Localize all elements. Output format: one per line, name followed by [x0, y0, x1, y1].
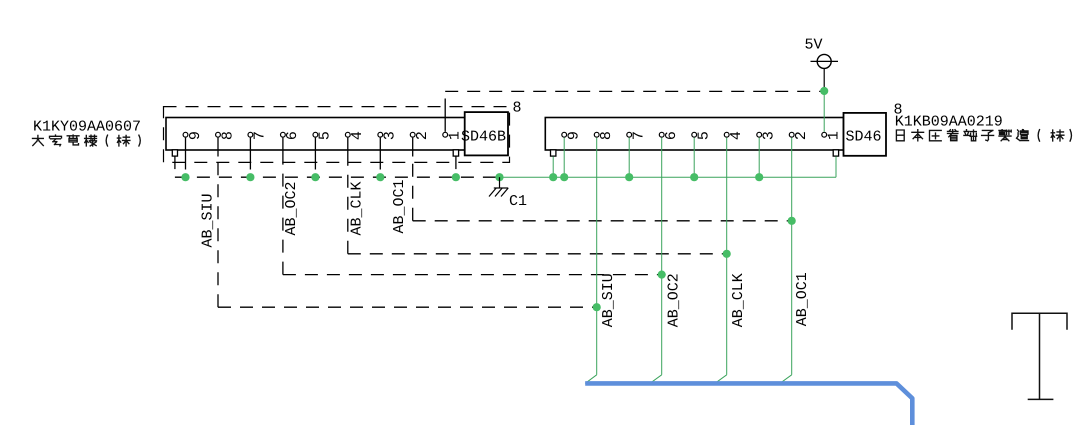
wire AB_OC1 CN2 pin 2 vertical green: [791, 138, 793, 375]
svg-text:4: 4: [728, 131, 745, 140]
connector CN1 left mounting stub: [172, 150, 177, 156]
wire CN1 right stub to GND bus: [455, 156, 457, 177]
CN1 pin 3 contact: [378, 132, 383, 137]
junction AB_CLK: [723, 250, 731, 258]
power symbol 5V stem: [823, 68, 825, 91]
CN2 manufacturer name (Japanese): [896, 130, 1071, 141]
wire GND from CN1 pin 9 vertical dashed: [185, 157, 187, 178]
svg-text:6: 6: [284, 131, 301, 140]
GND junction CN1 stub: [452, 173, 460, 181]
wire AB_SIU CN2 pin 8 vertical green: [596, 138, 598, 375]
wire CN2 pin 1 to 5V junction: [823, 91, 825, 132]
svg-text:AB_OC2: AB_OC2: [283, 181, 300, 235]
GND junction C1: [495, 173, 503, 181]
wire AB_OC1 from CN1 pin 2 vertical dashed: [412, 157, 414, 221]
wire GND bus green section: [500, 176, 837, 178]
CN2 pin 5 contact: [692, 132, 697, 137]
GND junction CN2 pin7: [625, 173, 633, 181]
wire AB_CLK from CN1 pin 4 vertical dashed: [347, 157, 349, 254]
junction AB_OC2: [658, 271, 666, 279]
CN1 pin 9 contact: [183, 132, 188, 137]
GND junction CN2 pin9: [560, 173, 568, 181]
svg-text:8: 8: [219, 131, 236, 140]
junction AB_OC1: [788, 217, 796, 225]
CN2 pin 7 contact: [627, 132, 632, 137]
wire AB_CLK bus entry jog: [715, 375, 727, 384]
connector CN2 body (right, SD46): [545, 118, 843, 151]
svg-text:1: 1: [826, 131, 843, 140]
wire 5V net horizontal dashed: [445, 90, 824, 92]
cable W1 dashed outline (left harness): [164, 107, 510, 163]
CN1 pin 1 contact: [443, 132, 448, 137]
CN2 pin 2 contact: [789, 132, 794, 137]
svg-text:AB_OC1: AB_OC1: [391, 179, 408, 233]
CN2 pin 4 contact: [724, 132, 729, 137]
connector CN2 left mounting stub: [551, 150, 556, 156]
svg-text:3: 3: [761, 131, 778, 140]
CN1 pin 9 lead (down): [185, 138, 187, 157]
GND junction CN1 pin9: [181, 173, 189, 181]
CN1 manufacturer name (Japanese): [33, 135, 141, 146]
CN1 pin 2 contact: [410, 132, 415, 137]
wire AB_OC1 bus entry jog: [780, 375, 792, 384]
CN1 pin 4 contact: [345, 132, 350, 137]
svg-text:5: 5: [317, 131, 334, 140]
wire CN2 pin 3 to GND bus: [758, 138, 760, 178]
CN2 pin 8 contact: [594, 132, 599, 137]
junction AB_SIU: [593, 303, 601, 311]
svg-text:5: 5: [696, 131, 713, 140]
wire CN2 pin 9 to GND bus: [563, 138, 565, 178]
wire CN2 pin 7 to GND bus: [628, 138, 630, 178]
wire AB_OC2 from CN1 pin 6 vertical dashed: [282, 157, 284, 275]
svg-text:9: 9: [566, 131, 583, 140]
svg-text:AB_OC2: AB_OC2: [666, 273, 683, 327]
CN1 pin 7 contact: [248, 132, 253, 137]
CN1 pin 3 lead (down): [379, 138, 381, 157]
svg-text:SD46B: SD46B: [461, 128, 506, 145]
wire AB_OC2 horizontal dashed to CN2: [283, 274, 662, 276]
wire AB_SIU from CN1 pin 8 vertical dashed: [217, 157, 219, 308]
ground symbol hatch 3: [489, 188, 496, 197]
svg-text:AB_CLK: AB_CLK: [349, 181, 366, 235]
svg-text:8: 8: [513, 100, 522, 117]
5V junction: [820, 87, 828, 95]
connector CN2 right mounting stub: [833, 150, 838, 156]
wire CN2 pin 5 to GND bus: [693, 138, 695, 178]
wire AB_CLK horizontal dashed to CN2: [348, 253, 727, 255]
wire AB_CLK CN2 pin 4 vertical green: [726, 138, 728, 375]
svg-text:7: 7: [631, 131, 648, 140]
GND junction CN1 pin3: [376, 173, 384, 181]
svg-text:AB_SIU: AB_SIU: [200, 193, 217, 247]
svg-text:AB_OC1: AB_OC1: [794, 272, 811, 326]
GND junction CN1 pin7: [246, 173, 254, 181]
CN2 pin 1 contact: [822, 132, 827, 137]
CN1 pin 8 contact: [216, 132, 221, 137]
connector CN2 part-name box SD46: [844, 113, 887, 156]
GND junction CN1 pin5: [311, 173, 319, 181]
wire AB_OC2 CN2 pin 6 vertical green: [661, 138, 663, 375]
connector CN1 part-name box SD46B: [465, 112, 508, 155]
svg-text:C1: C1: [509, 193, 527, 210]
svg-text:SD46: SD46: [845, 128, 881, 145]
svg-text:8: 8: [598, 131, 615, 140]
ground symbol bar: [494, 187, 508, 189]
power symbol 5V crossbar: [811, 60, 839, 62]
connector CN1 body (left, SD46B): [166, 118, 466, 151]
svg-text:AB_SIU: AB_SIU: [600, 273, 617, 327]
GND junction CN2 stub: [549, 173, 557, 181]
CN1 pin 5 lead (down): [314, 138, 316, 157]
wire AB_OC1 horizontal dashed to CN2: [413, 220, 792, 222]
svg-text:K1KB09AA0219: K1KB09AA0219: [895, 113, 1003, 130]
svg-text:K1KY09AA0607: K1KY09AA0607: [33, 118, 141, 135]
CN1 pin 6 contact: [281, 132, 286, 137]
wire GND bus riser to CN2 right stub: [835, 157, 837, 178]
ground symbol hatch 1: [501, 188, 508, 197]
wire CN1 pin1 to 5V net (vertical dashed): [444, 91, 446, 111]
wire GND from CN1 pin 5 vertical dashed: [314, 157, 316, 178]
wire CN1 left stub to GND bus: [174, 156, 176, 177]
CN2 pin 3 contact: [757, 132, 762, 137]
bus (thick blue): [585, 383, 912, 425]
ground symbol stem: [499, 177, 501, 188]
CN1 pin 7 lead (down): [249, 138, 251, 157]
svg-text:6: 6: [663, 131, 680, 140]
svg-text:4: 4: [349, 131, 366, 140]
CN2 pin 9 contact: [562, 132, 567, 137]
connector CN1 right mounting stub: [453, 150, 458, 156]
wire AB_SIU bus entry jog: [585, 375, 597, 384]
svg-text:2: 2: [793, 131, 810, 140]
svg-text:AB_CLK: AB_CLK: [730, 273, 747, 327]
CN2 pin 6 contact: [659, 132, 664, 137]
ground symbol hatch 2: [495, 188, 502, 197]
wire GND bus dashed section: [175, 176, 500, 178]
CN1 pin 2 lead (down): [412, 138, 414, 157]
GND junction CN2 pin5: [690, 173, 698, 181]
wire AB_OC2 bus entry jog: [650, 375, 662, 384]
CN1 pin 4 lead (down): [347, 138, 349, 157]
CN1 pin 6 lead (down): [282, 138, 284, 157]
svg-text:5V: 5V: [805, 36, 823, 53]
sheet text letter T: [1012, 313, 1067, 399]
power symbol 5V circle: [817, 54, 831, 68]
wire GND from CN1 pin 3 vertical dashed: [379, 157, 381, 178]
CN1 pin 5 contact: [313, 132, 318, 137]
svg-text:9: 9: [187, 131, 204, 140]
wire GND from CN1 pin 7 vertical dashed: [249, 157, 251, 178]
svg-text:2: 2: [414, 131, 431, 140]
wire AB_SIU horizontal dashed to CN2: [218, 306, 597, 308]
svg-text:7: 7: [252, 131, 269, 140]
wire CN2 left stub to GND bus: [552, 157, 554, 178]
CN1 pin 1 lead (up): [444, 112, 446, 132]
GND junction CN2 pin3: [755, 173, 763, 181]
CN1 pin 8 lead (down): [217, 138, 219, 157]
svg-text:3: 3: [382, 131, 399, 140]
